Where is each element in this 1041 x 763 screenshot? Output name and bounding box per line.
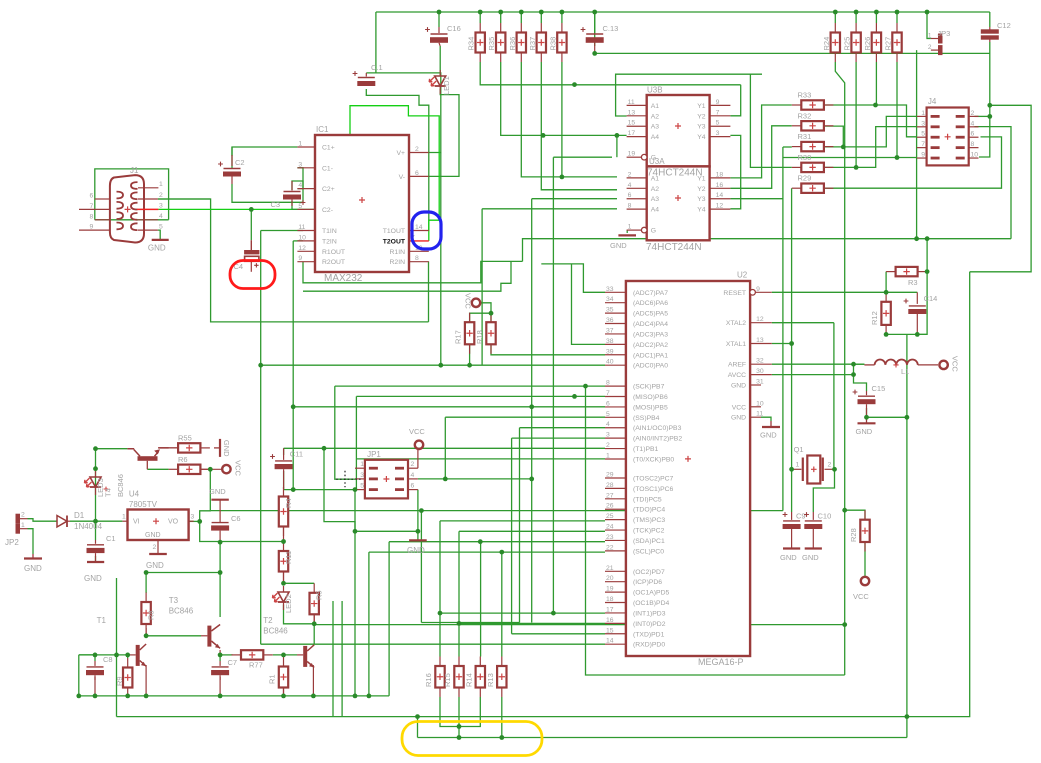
wire PC1 row: [389, 541, 605, 543]
svg-text:3: 3: [159, 203, 163, 210]
wire PD1 row: [512, 633, 605, 635]
resistor R33: [792, 104, 802, 106]
crystal Q1: [792, 468, 802, 470]
wire R27 col top: [896, 12, 898, 23]
wire row622: [421, 622, 519, 624]
svg-text:JP1: JP1: [367, 450, 381, 459]
wire T4 base to R6: [147, 468, 168, 470]
node T2 row R24 col: [842, 622, 847, 627]
svg-text:C7: C7: [228, 658, 238, 667]
ground for U3A G: [618, 234, 636, 236]
svg-text:(ADC0)PA0: (ADC0)PA0: [633, 363, 668, 370]
wire R2IN col down: [428, 261, 430, 322]
svg-text:R27: R27: [884, 37, 893, 51]
svg-text:38: 38: [606, 338, 614, 345]
node PA0 row dots: [438, 363, 443, 368]
VCC symbol: [222, 465, 230, 473]
wire U3A A4 col: [481, 209, 483, 365]
svg-text:BC846: BC846: [169, 607, 194, 616]
wire R18 bottom to PA1: [491, 344, 605, 355]
wire U3B Y4 to U3A Y4: [730, 135, 740, 208]
svg-text:14: 14: [606, 638, 614, 645]
svg-text:1: 1: [360, 461, 364, 468]
svg-text:XTAL2: XTAL2: [726, 320, 746, 327]
wire TDO col up to R31: [782, 147, 784, 511]
resistor R5: [313, 583, 315, 593]
svg-text:T1IN: T1IN: [322, 228, 337, 235]
svg-text:24: 24: [606, 524, 614, 531]
resistor R6: [169, 468, 179, 470]
svg-text:9: 9: [756, 286, 760, 293]
svg-text:10: 10: [971, 152, 979, 159]
svg-text:Y2: Y2: [697, 186, 706, 193]
wire rail2: [117, 272, 970, 717]
capacitor C6: [212, 522, 229, 524]
svg-text:(INT0)PD2: (INT0)PD2: [633, 621, 666, 628]
svg-text:Y3: Y3: [697, 196, 706, 203]
wire base rail: [79, 654, 94, 656]
wire PB4 row: [445, 416, 605, 418]
wire PB6 row: [356, 395, 605, 397]
resistor R15: [458, 657, 460, 667]
svg-text:R17: R17: [454, 330, 463, 344]
svg-text:(TOSC1)PC6: (TOSC1)PC6: [633, 486, 674, 493]
resistor R32: [792, 125, 802, 127]
svg-text:A3: A3: [651, 196, 660, 203]
wire PB2 PD1 col: [511, 438, 513, 634]
wire R1OUT loop: [303, 261, 511, 291]
wire JP1 pin5 col: [354, 490, 356, 532]
wire Q1 pin2 col: [813, 469, 834, 512]
capacitor C12: [989, 27, 991, 32]
svg-text:C1: C1: [106, 534, 116, 543]
svg-text:7805TV: 7805TV: [129, 500, 158, 509]
ground JP2: [32, 554, 34, 559]
wire PD2 row: [459, 622, 605, 624]
node XTAL1 join: [789, 341, 794, 346]
wire R25 bottom to R30 row: [855, 62, 857, 167]
wire VO rail down: [200, 521, 220, 541]
svg-text:10: 10: [756, 400, 764, 407]
wire PA0 long row: [261, 364, 605, 366]
VCC symbol: [939, 361, 947, 369]
svg-text:GND: GND: [146, 561, 164, 570]
svg-text:7: 7: [921, 141, 925, 148]
resistor R77: [232, 654, 242, 656]
svg-text:1: 1: [21, 522, 25, 529]
wire R3 col from pin4 row: [926, 239, 928, 272]
capacitor C1: [95, 540, 97, 544]
resistor R17: [469, 313, 471, 323]
wire J1 pin4 pin8 row: [95, 219, 169, 221]
svg-text:R3: R3: [908, 278, 918, 287]
svg-text:3: 3: [716, 130, 720, 137]
wire R34 col to U3 rail: [479, 12, 481, 23]
svg-text:(T0/XCK)PB0: (T0/XCK)PB0: [633, 456, 674, 463]
transistor T1: [136, 645, 140, 666]
ground: [214, 447, 220, 449]
wire C.13 top: [594, 12, 596, 46]
node C.13 rail: [592, 51, 597, 56]
capacitor C7: [219, 661, 221, 666]
wire C2 top to IC1 pin1: [232, 147, 297, 169]
wire R38 bottom to U3A A1 dot: [561, 62, 563, 177]
svg-text:U3A: U3A: [649, 157, 665, 166]
wire T4 collector to R55: [158, 447, 178, 449]
svg-text:R15: R15: [443, 673, 452, 687]
svg-text:7: 7: [606, 390, 610, 397]
connector JP1: [365, 460, 408, 499]
wire R77 to T2 base: [273, 654, 297, 656]
svg-text:T4: T4: [104, 488, 113, 497]
wire R31 to J4 pin1: [824, 116, 917, 146]
wire R34 bottom to y85 rail: [480, 62, 741, 85]
svg-text:1: 1: [921, 110, 925, 117]
node J4 pin9 row: [895, 155, 900, 160]
wire R6 right node: [200, 468, 222, 470]
node R15 R13 bottom dots: [457, 724, 462, 729]
svg-text:4: 4: [411, 472, 415, 479]
svg-text:V+: V+: [396, 150, 405, 157]
svg-text:26: 26: [606, 503, 614, 510]
node C15 row: [864, 415, 869, 420]
svg-text:R1IN: R1IN: [390, 249, 406, 256]
svg-text:R31: R31: [798, 132, 812, 141]
svg-text:BC846: BC846: [116, 474, 125, 497]
svg-text:JP3: JP3: [937, 29, 950, 38]
wire XTAL2 row: [772, 322, 834, 324]
resistor R13: [501, 657, 503, 667]
svg-text:2: 2: [828, 462, 832, 469]
resistor R27: [896, 23, 898, 33]
svg-text:C1-: C1-: [322, 165, 333, 172]
svg-text:18: 18: [606, 596, 614, 603]
svg-text:1: 1: [628, 224, 632, 231]
svg-text:5: 5: [159, 223, 163, 230]
svg-text:AREF: AREF: [728, 362, 746, 369]
wire PD0 row: [586, 643, 606, 645]
LED LED2: [278, 592, 289, 602]
svg-text:4: 4: [298, 182, 302, 189]
svg-text:T2IN: T2IN: [322, 238, 337, 245]
node C11 rail dot: [322, 446, 327, 451]
svg-text:R33: R33: [798, 91, 812, 100]
svg-text:A2: A2: [651, 186, 660, 193]
wire C11 drop: [324, 448, 355, 531]
J1 pin 8: [95, 219, 110, 221]
svg-text:8: 8: [628, 203, 632, 210]
svg-text:IC1: IC1: [316, 125, 329, 134]
capacitor C10: [812, 512, 814, 520]
wire LED2 bottom hook: [284, 605, 315, 624]
svg-text:Y4: Y4: [697, 207, 706, 214]
diode D1 1N4004: [57, 516, 67, 528]
resistor R16: [439, 657, 441, 667]
svg-text:GND: GND: [760, 431, 777, 440]
capacitor C11: [283, 448, 285, 460]
VCC symbol R28: [861, 577, 869, 585]
svg-text:C2: C2: [235, 158, 245, 167]
wire left rail col: [78, 655, 80, 696]
node R8 T1 node: [144, 633, 149, 638]
svg-text:XTAL1: XTAL1: [726, 341, 746, 348]
svg-text:5: 5: [716, 120, 720, 127]
svg-text:11: 11: [298, 224, 305, 231]
wire LED3 node col: [95, 449, 97, 522]
node R17 R18 top: [489, 311, 494, 316]
svg-text:3: 3: [298, 161, 302, 168]
resistor R24: [834, 23, 836, 33]
svg-text:2: 2: [628, 171, 632, 178]
svg-text:(AIN1/OC0)PB3: (AIN1/OC0)PB3: [633, 425, 682, 432]
svg-text:40: 40: [606, 359, 614, 366]
svg-text:2: 2: [21, 512, 25, 519]
svg-text:6: 6: [971, 131, 975, 138]
svg-text:R38: R38: [548, 37, 557, 51]
wire VCC node to VO: [200, 469, 211, 521]
wire R2OUT loop: [303, 261, 523, 282]
resistor R34: [479, 23, 481, 33]
ground U4 pin2: [157, 540, 159, 554]
wire R16 R14 bottom seg: [440, 697, 480, 727]
svg-text:8: 8: [971, 141, 975, 148]
wire C14 node col down: [906, 334, 908, 737]
node R30 row: [854, 165, 859, 170]
wire T2 collector hook: [313, 624, 315, 644]
wire x117 col: [116, 578, 118, 717]
svg-text:5: 5: [921, 131, 925, 138]
connector JP3: [931, 38, 939, 40]
VCC symbol JP1: [415, 441, 423, 449]
wire C6 bottom rail right: [220, 541, 283, 543]
wire T2IN col to PB5: [292, 241, 294, 490]
svg-text:C12: C12: [997, 21, 1011, 30]
resistor R36: [520, 23, 522, 33]
svg-text:3: 3: [921, 120, 925, 127]
svg-text:R36: R36: [508, 37, 517, 51]
node LED2 R5 nodes: [281, 581, 286, 586]
node PC0 R13 dot: [499, 550, 504, 555]
svg-text:T3: T3: [169, 596, 179, 605]
svg-text:R11: R11: [284, 551, 293, 564]
svg-text:5: 5: [360, 483, 364, 490]
svg-text:20: 20: [606, 575, 614, 582]
wire PB7 to JP1 pin3: [335, 386, 355, 479]
wire TDO to row622 col: [420, 511, 422, 623]
svg-text:R35: R35: [487, 37, 496, 51]
wire R8 bottom to T1 collector node: [145, 633, 147, 636]
wire PB3 col: [519, 428, 521, 623]
svg-text:(TMS)PC3: (TMS)PC3: [633, 517, 665, 524]
svg-text:6: 6: [415, 170, 419, 177]
wire R3 left hook: [885, 272, 887, 293]
wire T3 emitter col: [219, 650, 221, 655]
wire C16 top: [438, 12, 440, 27]
wire C11 top hook: [283, 448, 285, 455]
wire T1 base row: [79, 654, 126, 656]
wire R35 bottom to U3B A4 row: [501, 62, 627, 135]
capacitor C3: [291, 181, 293, 191]
wire AREF AVCC link: [853, 364, 855, 374]
svg-text:(OC1B)PD4: (OC1B)PD4: [633, 600, 669, 607]
wire U3B G row: [553, 156, 612, 158]
wire C11 bottom to node: [283, 471, 285, 489]
svg-text:T2: T2: [263, 616, 273, 625]
wire JP3 pin2 col down: [916, 50, 918, 239]
wire R24col R28 row: [845, 510, 865, 520]
svg-text:2: 2: [971, 110, 975, 117]
wire XTAL1 row: [772, 343, 792, 345]
svg-text:C11: C11: [290, 450, 303, 459]
wire R16 col from PC3: [439, 521, 441, 657]
wire R18 top: [490, 313, 492, 322]
svg-text:(ADC2)PA2: (ADC2)PA2: [633, 342, 668, 349]
IC U3B 74HCT244N: [647, 95, 710, 166]
wire C.13 bottom rail: [595, 52, 990, 54]
svg-text:19: 19: [606, 586, 614, 593]
node R12 C14 nodes: [884, 290, 889, 295]
svg-text:3: 3: [606, 432, 610, 439]
svg-text:GND: GND: [731, 383, 746, 390]
resistor R25: [855, 23, 857, 33]
svg-text:MAX232: MAX232: [324, 273, 363, 284]
ground JP1 pin6: [409, 539, 427, 541]
svg-text:2: 2: [415, 146, 419, 153]
wire J4 pin9 row from R27 col: [897, 157, 917, 159]
node PD3 dot: [551, 611, 556, 616]
wire PB2 row: [512, 437, 605, 439]
node JP1 nodes: [353, 487, 358, 492]
svg-text:R28: R28: [849, 528, 858, 542]
svg-text:7: 7: [716, 109, 720, 116]
svg-text:3: 3: [191, 514, 195, 521]
connector J4: [927, 108, 969, 166]
resistor R12: [885, 292, 887, 302]
wire R36 top: [520, 12, 522, 23]
wire rail2 drop to rail736: [417, 717, 419, 738]
J1 pin 9: [79, 229, 110, 231]
svg-text:(TDI)PC5: (TDI)PC5: [633, 496, 662, 503]
svg-text:4: 4: [159, 213, 163, 220]
wire J1 pin3 net to MAX232 T2OUT: [158, 106, 439, 241]
resistor R11: [283, 542, 285, 552]
svg-text:17: 17: [628, 130, 636, 137]
svg-text:R12: R12: [870, 311, 879, 325]
svg-text:(ADC3)PA3: (ADC3)PA3: [633, 331, 668, 338]
svg-text:GND: GND: [802, 553, 819, 562]
svg-text:4: 4: [628, 182, 632, 189]
svg-text:4: 4: [971, 120, 975, 127]
capacitor C.1: [365, 73, 367, 77]
wire PC4 TDO long row: [211, 510, 783, 512]
wire C7 col: [219, 655, 221, 661]
wire U3A A4 row: [482, 208, 617, 210]
annotation blue ellipse around pins 14 and 7: [412, 212, 441, 249]
svg-text:1: 1: [796, 462, 800, 469]
svg-text:(ICP)PD6: (ICP)PD6: [633, 579, 662, 586]
svg-text:(SCL)PC0: (SCL)PC0: [633, 548, 664, 555]
node row622 dot: [419, 508, 424, 513]
wire R11 bottom: [283, 571, 285, 583]
wire C3 top to IC1 pin4: [292, 181, 303, 190]
svg-text:27: 27: [606, 492, 614, 499]
resistor R28: [864, 510, 866, 520]
svg-text:MEGA16-P: MEGA16-P: [698, 657, 744, 667]
wire R3 node row: [886, 291, 917, 293]
svg-text:36: 36: [606, 317, 614, 324]
svg-text:VO: VO: [168, 519, 179, 526]
svg-text:(RXD)PD0: (RXD)PD0: [633, 642, 665, 649]
wire T2 collector long row: [314, 624, 845, 626]
wire C16 to LED1: [439, 46, 441, 75]
wire VCC top rail: [376, 11, 990, 13]
node C7 node: [218, 653, 223, 658]
node Q1 nodes: [789, 467, 794, 472]
svg-text:C.1: C.1: [371, 63, 383, 72]
wire R38 top: [561, 12, 563, 23]
svg-text:R9: R9: [115, 676, 124, 686]
wire C1 bottom: [95, 556, 97, 562]
svg-text:GND: GND: [780, 553, 797, 562]
wire R27 bottom to J4 pin9 row: [896, 62, 898, 158]
svg-text:R26: R26: [863, 37, 872, 51]
wire JP3 pin1 from rail: [927, 12, 931, 39]
resistor R18: [490, 313, 492, 323]
svg-text:3: 3: [360, 472, 364, 479]
svg-text:GND: GND: [24, 564, 42, 573]
ground C10: [805, 547, 822, 549]
node R28 node: [842, 508, 847, 513]
wire A4 row drop col: [616, 135, 618, 157]
svg-text:(ADC1)PA1: (ADC1)PA1: [633, 352, 668, 359]
svg-text:V-: V-: [399, 174, 405, 181]
node AREF AVCC: [851, 362, 856, 367]
svg-text:32: 32: [756, 358, 764, 365]
wire T4 base top row: [96, 448, 128, 450]
wire PB4 col to pin4 row: [444, 417, 446, 479]
svg-text:8: 8: [90, 213, 94, 220]
wire JP2 pin1 gnd: [28, 529, 34, 554]
svg-text:VCC: VCC: [233, 460, 242, 476]
node rail572 left: [144, 570, 149, 575]
node C6 rail nodes: [218, 540, 223, 545]
svg-text:9: 9: [716, 99, 720, 106]
svg-text:31: 31: [756, 379, 764, 386]
svg-text:R1: R1: [268, 674, 277, 684]
wire PD3 row: [440, 612, 605, 614]
svg-text:6: 6: [606, 400, 610, 407]
svg-text:G: G: [651, 228, 656, 235]
svg-text:1: 1: [298, 141, 302, 148]
svg-text:11: 11: [756, 411, 763, 418]
wire J4 pin9 row left: [783, 157, 897, 159]
wire R26 col top: [875, 12, 877, 23]
svg-text:34: 34: [606, 296, 614, 303]
wire PB7 row: [335, 385, 605, 387]
svg-text:C10: C10: [818, 512, 832, 521]
wire R3 col to C14 node: [917, 272, 927, 335]
J1 pin 6: [95, 198, 110, 200]
svg-text:U4: U4: [129, 490, 140, 499]
wire rail 572: [146, 572, 220, 574]
wire U3A A3 col down: [531, 199, 533, 623]
wire C8 top: [94, 655, 96, 661]
wire U3A A2 row left seg: [541, 189, 617, 191]
J1 pin 5: [138, 229, 158, 231]
svg-text:(ADC5)PA5: (ADC5)PA5: [633, 311, 668, 318]
wire T1IN row: [261, 230, 303, 232]
wire T2IN row: [293, 240, 303, 242]
